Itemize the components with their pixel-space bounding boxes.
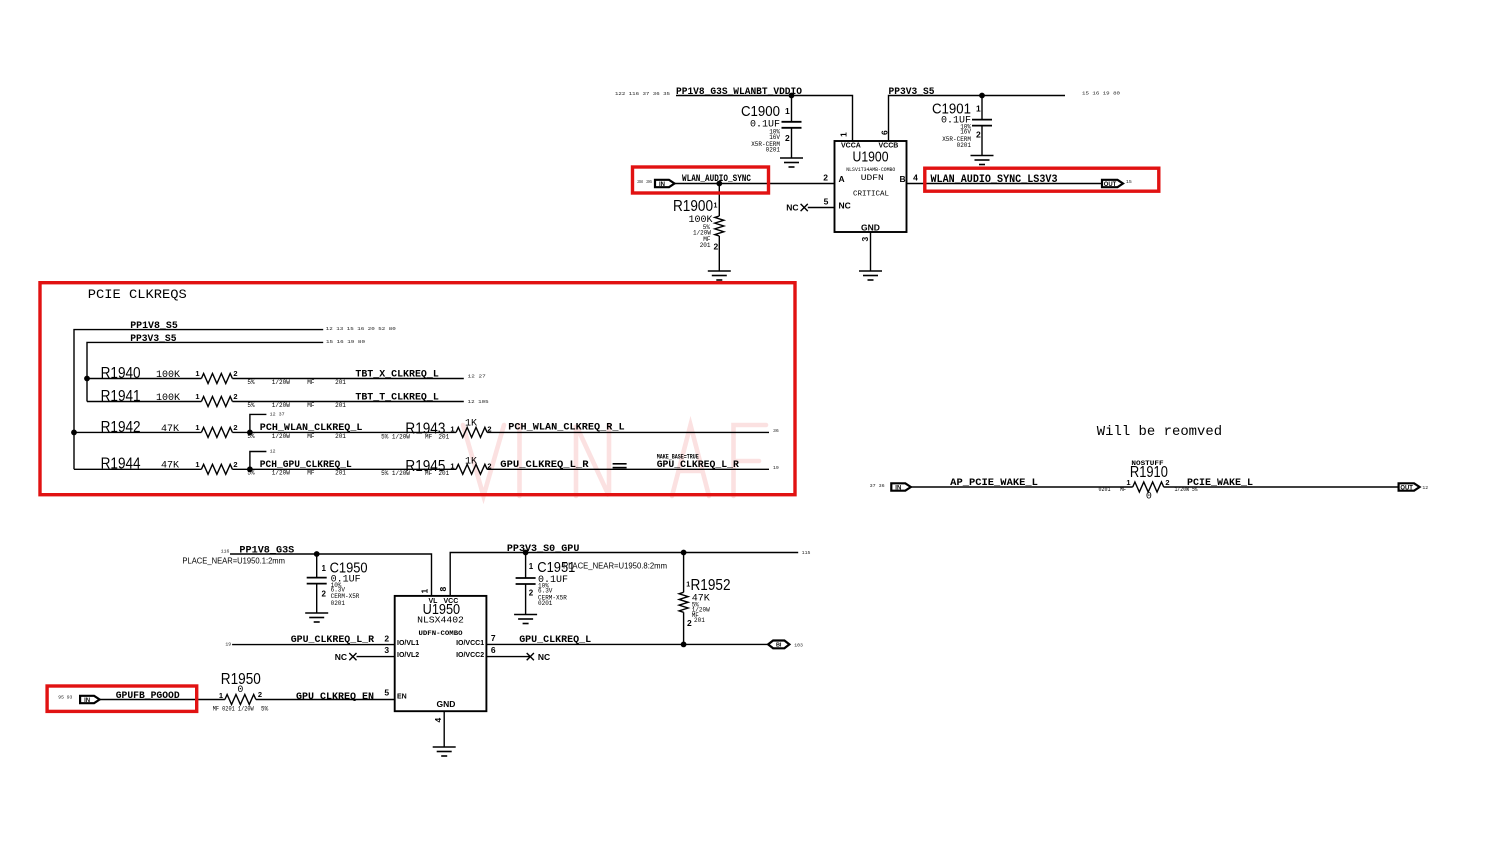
svg-text:1: 1 — [529, 562, 534, 571]
svg-text:2: 2 — [258, 690, 262, 699]
svg-text:6: 6 — [491, 645, 496, 655]
svg-text:R1900: R1900 — [673, 198, 713, 215]
svg-text:NC: NC — [786, 203, 798, 213]
svg-text:B: B — [900, 174, 906, 184]
svg-text:103: 103 — [794, 643, 803, 649]
svg-text:201: 201 — [694, 617, 705, 624]
svg-text:MF: MF — [307, 402, 315, 409]
svg-text:122 116 37 36 35: 122 116 37 36 35 — [615, 91, 670, 97]
svg-text:6.3V: 6.3V — [538, 587, 553, 594]
svg-text:C1900: C1900 — [741, 104, 780, 120]
svg-text:1: 1 — [420, 589, 430, 594]
svg-text:100K: 100K — [156, 393, 180, 404]
svg-text:CRITICAL: CRITICAL — [853, 191, 889, 199]
svg-text:1: 1 — [195, 423, 199, 432]
svg-text:201: 201 — [335, 402, 346, 409]
svg-text:47K: 47K — [161, 424, 179, 435]
svg-text:PCH_WLAN_CLKREQ_R_L: PCH_WLAN_CLKREQ_R_L — [508, 422, 624, 433]
svg-text:12: 12 — [270, 449, 276, 455]
svg-text:5%: 5% — [247, 402, 255, 409]
svg-text:GPUFB_PGOOD: GPUFB_PGOOD — [116, 691, 180, 702]
svg-text:5%: 5% — [261, 705, 269, 712]
svg-text:R1940: R1940 — [101, 365, 141, 382]
svg-text:PLACE_NEAR=U1950.8:2mm: PLACE_NEAR=U1950.8:2mm — [563, 560, 667, 570]
svg-text:PCIE CLKREQS: PCIE CLKREQS — [88, 287, 187, 302]
svg-text:PP3V3_S0_GPU: PP3V3_S0_GPU — [507, 544, 580, 555]
svg-text:0201: 0201 — [1099, 486, 1111, 493]
svg-text:12 37: 12 37 — [270, 411, 285, 417]
svg-text:PCIE_WAKE_L: PCIE_WAKE_L — [1187, 478, 1253, 489]
svg-text:201: 201 — [335, 379, 346, 386]
svg-text:12 105: 12 105 — [468, 399, 489, 405]
svg-text:1: 1 — [785, 106, 790, 116]
svg-text:15: 15 — [1126, 179, 1132, 185]
svg-text:R1910: R1910 — [1130, 464, 1168, 481]
svg-text:IO/VL1: IO/VL1 — [397, 640, 419, 647]
svg-text:AP_PCIE_WAKE_L: AP_PCIE_WAKE_L — [950, 478, 1038, 489]
svg-text:5% 1/20W: 5% 1/20W — [381, 433, 410, 440]
svg-text:PLACE_NEAR=U1950.1:2mm: PLACE_NEAR=U1950.1:2mm — [182, 556, 285, 566]
svg-text:U1900: U1900 — [853, 149, 889, 166]
svg-text:2: 2 — [823, 172, 828, 182]
svg-text:PP3V3_S5: PP3V3_S5 — [130, 334, 176, 345]
svg-text:5: 5 — [384, 687, 389, 697]
svg-text:0201: 0201 — [957, 142, 972, 149]
svg-text:IO/VL2: IO/VL2 — [397, 652, 419, 659]
svg-text:MF: MF — [425, 470, 433, 477]
svg-text:12: 12 — [1422, 485, 1428, 491]
svg-text:PCH_WLAN_CLKREQ_L: PCH_WLAN_CLKREQ_L — [260, 423, 363, 434]
svg-text:2: 2 — [322, 590, 327, 599]
svg-text:1: 1 — [195, 392, 199, 401]
svg-text:19: 19 — [773, 465, 779, 471]
svg-text:7: 7 — [491, 633, 496, 643]
svg-text:95 93: 95 93 — [58, 695, 72, 701]
svg-text:1: 1 — [195, 460, 199, 469]
svg-text:0201: 0201 — [331, 600, 346, 607]
svg-text:PP3V3_S5: PP3V3_S5 — [889, 87, 935, 98]
svg-text:1: 1 — [714, 203, 718, 210]
svg-text:MF: MF — [307, 379, 315, 386]
svg-text:116: 116 — [221, 549, 230, 555]
svg-text:2: 2 — [785, 133, 790, 143]
svg-text:GND: GND — [437, 699, 456, 709]
svg-text:3: 3 — [384, 645, 389, 655]
svg-text:R1944: R1944 — [101, 456, 141, 473]
svg-text:0201: 0201 — [766, 147, 781, 154]
svg-text:MF: MF — [1120, 486, 1126, 493]
svg-text:IO/VCC1: IO/VCC1 — [456, 640, 484, 647]
svg-text:15 16 19 80: 15 16 19 80 — [326, 339, 365, 345]
svg-text:2: 2 — [233, 460, 237, 469]
svg-text:5%: 5% — [247, 379, 255, 386]
svg-text:115: 115 — [802, 550, 811, 556]
svg-text:MF: MF — [425, 433, 433, 440]
svg-text:PP1V8_S5: PP1V8_S5 — [130, 321, 178, 332]
svg-text:19: 19 — [225, 641, 231, 647]
svg-text:5%: 5% — [247, 470, 255, 477]
svg-text:1: 1 — [450, 425, 454, 434]
svg-text:TBT_X_CLKREQ_L: TBT_X_CLKREQ_L — [355, 369, 438, 380]
svg-text:UDFN-COMBO: UDFN-COMBO — [419, 630, 463, 637]
svg-text:5% 1/20W: 5% 1/20W — [381, 470, 410, 477]
svg-text:R1942: R1942 — [101, 419, 141, 436]
svg-text:PP1V8_G3S_WLANBT_VDDIO: PP1V8_G3S_WLANBT_VDDIO — [676, 87, 802, 98]
svg-text:NC: NC — [839, 201, 851, 211]
svg-text:0201: 0201 — [538, 600, 553, 607]
svg-text:PCH_GPU_CLKREQ_L: PCH_GPU_CLKREQ_L — [260, 460, 352, 471]
svg-text:1: 1 — [450, 461, 454, 470]
svg-text:12 13 15 16 20 52 80: 12 13 15 16 20 52 80 — [326, 326, 396, 332]
svg-text:1: 1 — [195, 369, 199, 378]
svg-text:47K: 47K — [161, 461, 179, 472]
svg-text:UDFN: UDFN — [861, 173, 884, 183]
svg-text:201: 201 — [438, 433, 449, 440]
svg-text:2: 2 — [529, 588, 534, 597]
svg-text:4: 4 — [913, 172, 918, 182]
svg-text:GPU_CLKREQ_L_R: GPU_CLKREQ_L_R — [291, 635, 374, 646]
svg-text:IO/VCC2: IO/VCC2 — [456, 652, 484, 659]
svg-text:1: 1 — [1126, 478, 1130, 487]
svg-text:Will be reomved: Will be reomved — [1097, 425, 1222, 440]
svg-text:6: 6 — [880, 130, 890, 135]
svg-text:TBT_T_CLKREQ_L: TBT_T_CLKREQ_L — [355, 392, 438, 403]
svg-text:201: 201 — [700, 242, 711, 249]
svg-text:WLAN_AUDIO_SYNC: WLAN_AUDIO_SYNC — [682, 174, 751, 185]
svg-text:0: 0 — [237, 685, 243, 696]
svg-text:2: 2 — [384, 634, 389, 644]
svg-text:15 16 19 80: 15 16 19 80 — [1082, 91, 1120, 97]
svg-text:2: 2 — [976, 130, 981, 140]
svg-text:NC: NC — [538, 652, 550, 662]
svg-text:MF 0201 1/20W: MF 0201 1/20W — [213, 705, 254, 712]
svg-text:1: 1 — [219, 691, 223, 700]
svg-text:EN: EN — [397, 694, 407, 701]
svg-text:2: 2 — [233, 392, 237, 401]
svg-text:38 36: 38 36 — [637, 179, 652, 185]
svg-text:GPU_CLKREQ_L: GPU_CLKREQ_L — [519, 635, 591, 646]
svg-text:16V: 16V — [960, 129, 971, 136]
svg-text:36: 36 — [773, 428, 779, 434]
svg-text:1/20W: 1/20W — [272, 402, 290, 409]
svg-text:GPU_CLKREQ_EN: GPU_CLKREQ_EN — [296, 692, 374, 703]
svg-text:2: 2 — [1165, 478, 1169, 487]
svg-text:1: 1 — [976, 104, 981, 114]
svg-text:MF: MF — [307, 433, 315, 440]
svg-text:2: 2 — [714, 242, 719, 252]
svg-text:100K: 100K — [156, 370, 180, 381]
svg-text:NLSX4402: NLSX4402 — [417, 615, 464, 626]
svg-text:GPU_CLKREQ_L_R: GPU_CLKREQ_L_R — [500, 460, 588, 471]
svg-text:8: 8 — [438, 587, 448, 592]
svg-text:R1941: R1941 — [101, 388, 141, 405]
svg-text:1/20W: 1/20W — [272, 379, 290, 386]
svg-text:5%: 5% — [247, 433, 255, 440]
svg-text:201: 201 — [335, 433, 346, 440]
svg-text:3: 3 — [860, 237, 870, 242]
svg-text:A: A — [839, 174, 845, 184]
svg-text:201: 201 — [438, 470, 449, 477]
svg-text:GND: GND — [861, 223, 880, 233]
svg-text:GPU_CLKREQ_L_R: GPU_CLKREQ_L_R — [657, 460, 739, 471]
svg-text:12 27: 12 27 — [468, 373, 486, 379]
svg-text:37 36: 37 36 — [870, 483, 885, 489]
svg-text:16V: 16V — [769, 134, 780, 141]
svg-text:R1952: R1952 — [691, 577, 731, 594]
svg-text:1: 1 — [839, 132, 849, 137]
svg-text:WLAN_AUDIO_SYNC_LS3V3: WLAN_AUDIO_SYNC_LS3V3 — [931, 174, 1058, 186]
svg-text:0: 0 — [1146, 492, 1152, 503]
svg-text:1: 1 — [322, 564, 327, 573]
svg-text:1/20W: 1/20W — [272, 433, 290, 440]
svg-text:NC: NC — [335, 652, 347, 662]
svg-text:5: 5 — [824, 196, 829, 206]
svg-text:4: 4 — [433, 718, 443, 723]
svg-text:2: 2 — [233, 369, 237, 378]
svg-text:2: 2 — [233, 423, 237, 432]
svg-text:2: 2 — [687, 618, 692, 628]
